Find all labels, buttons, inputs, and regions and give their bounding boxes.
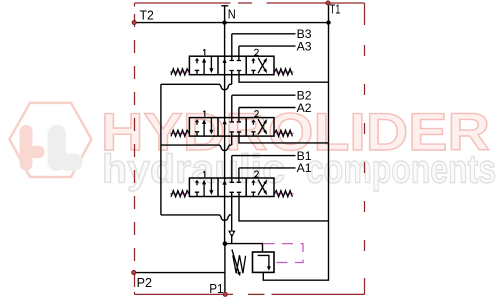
wire tank gallery right side with relief outlet	[263, 23, 328, 281]
spring right of V3	[276, 71, 294, 73]
watermark logo hexagon	[10, 103, 92, 177]
wire port A1 line	[239, 168, 296, 182]
V2 right cell blocked carry-over symbol	[251, 119, 255, 122]
valve section V1 box	[189, 178, 274, 197]
svg-text:A2: A2	[297, 101, 312, 115]
port N terminal	[221, 6, 228, 23]
spring right of V1	[276, 193, 294, 195]
spring left of V2	[170, 132, 188, 134]
V1 right cell blocked carry-over symbol	[251, 180, 255, 183]
enclosure boundary left edge	[134, 3, 136, 294]
wire V2 pressure feed stub	[231, 132, 233, 145]
watermark logo H crossbar	[30, 146, 45, 158]
spring left of V1	[170, 193, 188, 195]
V2 left cell blocked carry-over symbol	[195, 119, 199, 122]
label position 2 of V2	[255, 111, 259, 117]
label position 2 of V3	[255, 49, 259, 55]
enclosure boundary bottom edge	[135, 293, 365, 295]
label position 2 of V1	[255, 171, 259, 177]
watermark logo L stem	[48, 125, 67, 171]
check valve	[228, 231, 235, 238]
wire neutral carry-over passage	[224, 23, 226, 244]
svg-text:P2: P2	[137, 275, 152, 290]
V3 right cell blocked carry-over symbol	[251, 58, 255, 61]
wire V3 pressure feed stub	[231, 71, 233, 85]
wire port A2 line	[239, 108, 296, 122]
wire tank rail T2 to T1	[134, 22, 329, 24]
V1 left cell arrow up	[203, 183, 205, 196]
valve section V2 box	[189, 118, 274, 137]
svg-text:T2: T2	[140, 8, 154, 23]
watermark logo L foot	[60, 154, 83, 172]
relief valve adjustable spring	[233, 255, 246, 273]
wire P branch to V2 (hops neutral line)	[161, 145, 232, 150]
wire port B1 line	[232, 156, 296, 183]
enclosure boundary top edge	[135, 2, 365, 4]
node N junction	[222, 20, 226, 24]
svg-text:N: N	[228, 7, 236, 22]
V3 left cell blocked carry-over symbol	[195, 58, 199, 61]
spring right of V2	[276, 132, 294, 134]
label position 1 of V3	[203, 49, 205, 55]
port P2 circle	[132, 271, 136, 275]
svg-text:hydraulic: hydraulic	[102, 148, 285, 192]
V3 middle cell blocked port bars	[230, 61, 242, 71]
svg-text:A3: A3	[297, 39, 312, 53]
V1 left cell arrow down	[210, 178, 212, 191]
wire port T1 drop	[328, 3, 330, 23]
watermark logo H left bar	[20, 125, 33, 171]
V3 middle cell neutral passage arrow	[223, 58, 227, 63]
wire pressure gallery left side	[160, 84, 162, 215]
V1 middle cell blocked port bars	[230, 182, 242, 192]
relief valve flow arrow	[258, 255, 269, 267]
wire port A3 line	[239, 46, 296, 60]
V1 right cell crossed arrows	[258, 180, 265, 192]
node P junction	[223, 241, 228, 246]
wire check valve line	[231, 215, 233, 244]
V3 left cell arrow down	[210, 56, 212, 69]
node T1 junction	[326, 20, 330, 24]
wire V3 tank return to gallery	[239, 71, 329, 83]
port T2 circle	[132, 20, 136, 24]
V1 middle cell neutral passage arrow	[223, 180, 227, 185]
wire V1 pressure feed stub	[231, 192, 233, 215]
V3 left cell arrow up	[203, 62, 205, 75]
wire junction to relief valve inlet	[225, 244, 263, 252]
wire V2 tank return to gallery	[239, 132, 329, 143]
port T1 circle	[326, 1, 330, 5]
V1 left cell blocked carry-over symbol	[195, 180, 199, 183]
V2 left cell arrow down	[210, 118, 212, 131]
wire port B2 line	[232, 95, 296, 122]
svg-text:P1: P1	[209, 281, 223, 296]
wire P1 riser	[224, 244, 226, 295]
label position 1 of V2	[203, 111, 205, 117]
pilot line (magenta dashed)	[264, 244, 304, 263]
svg-text:T1: T1	[330, 1, 341, 16]
wire P branch to V3 (hops neutral line)	[161, 84, 232, 89]
wire V1 tank return to gallery	[239, 192, 329, 221]
svg-text:components: components	[306, 148, 496, 192]
V3 right cell crossed arrows	[258, 58, 265, 70]
port P1 circle	[223, 292, 227, 296]
label position 1 of V1	[203, 171, 205, 177]
V2 middle cell neutral passage arrow	[223, 120, 227, 125]
wire P branch to V1 (hops neutral line)	[161, 215, 232, 220]
V2 left cell arrow up	[203, 123, 205, 136]
relief valve RV1 box	[253, 252, 275, 272]
wire port B3 line	[232, 34, 296, 61]
valve section V3 box	[189, 56, 274, 74]
svg-text:A1: A1	[297, 161, 312, 175]
V2 right cell crossed arrows	[258, 119, 265, 131]
enclosure boundary right edge	[364, 3, 366, 294]
spring left of V3	[170, 71, 188, 73]
wire P2 line	[134, 272, 225, 274]
V2 middle cell blocked port bars	[230, 122, 242, 132]
